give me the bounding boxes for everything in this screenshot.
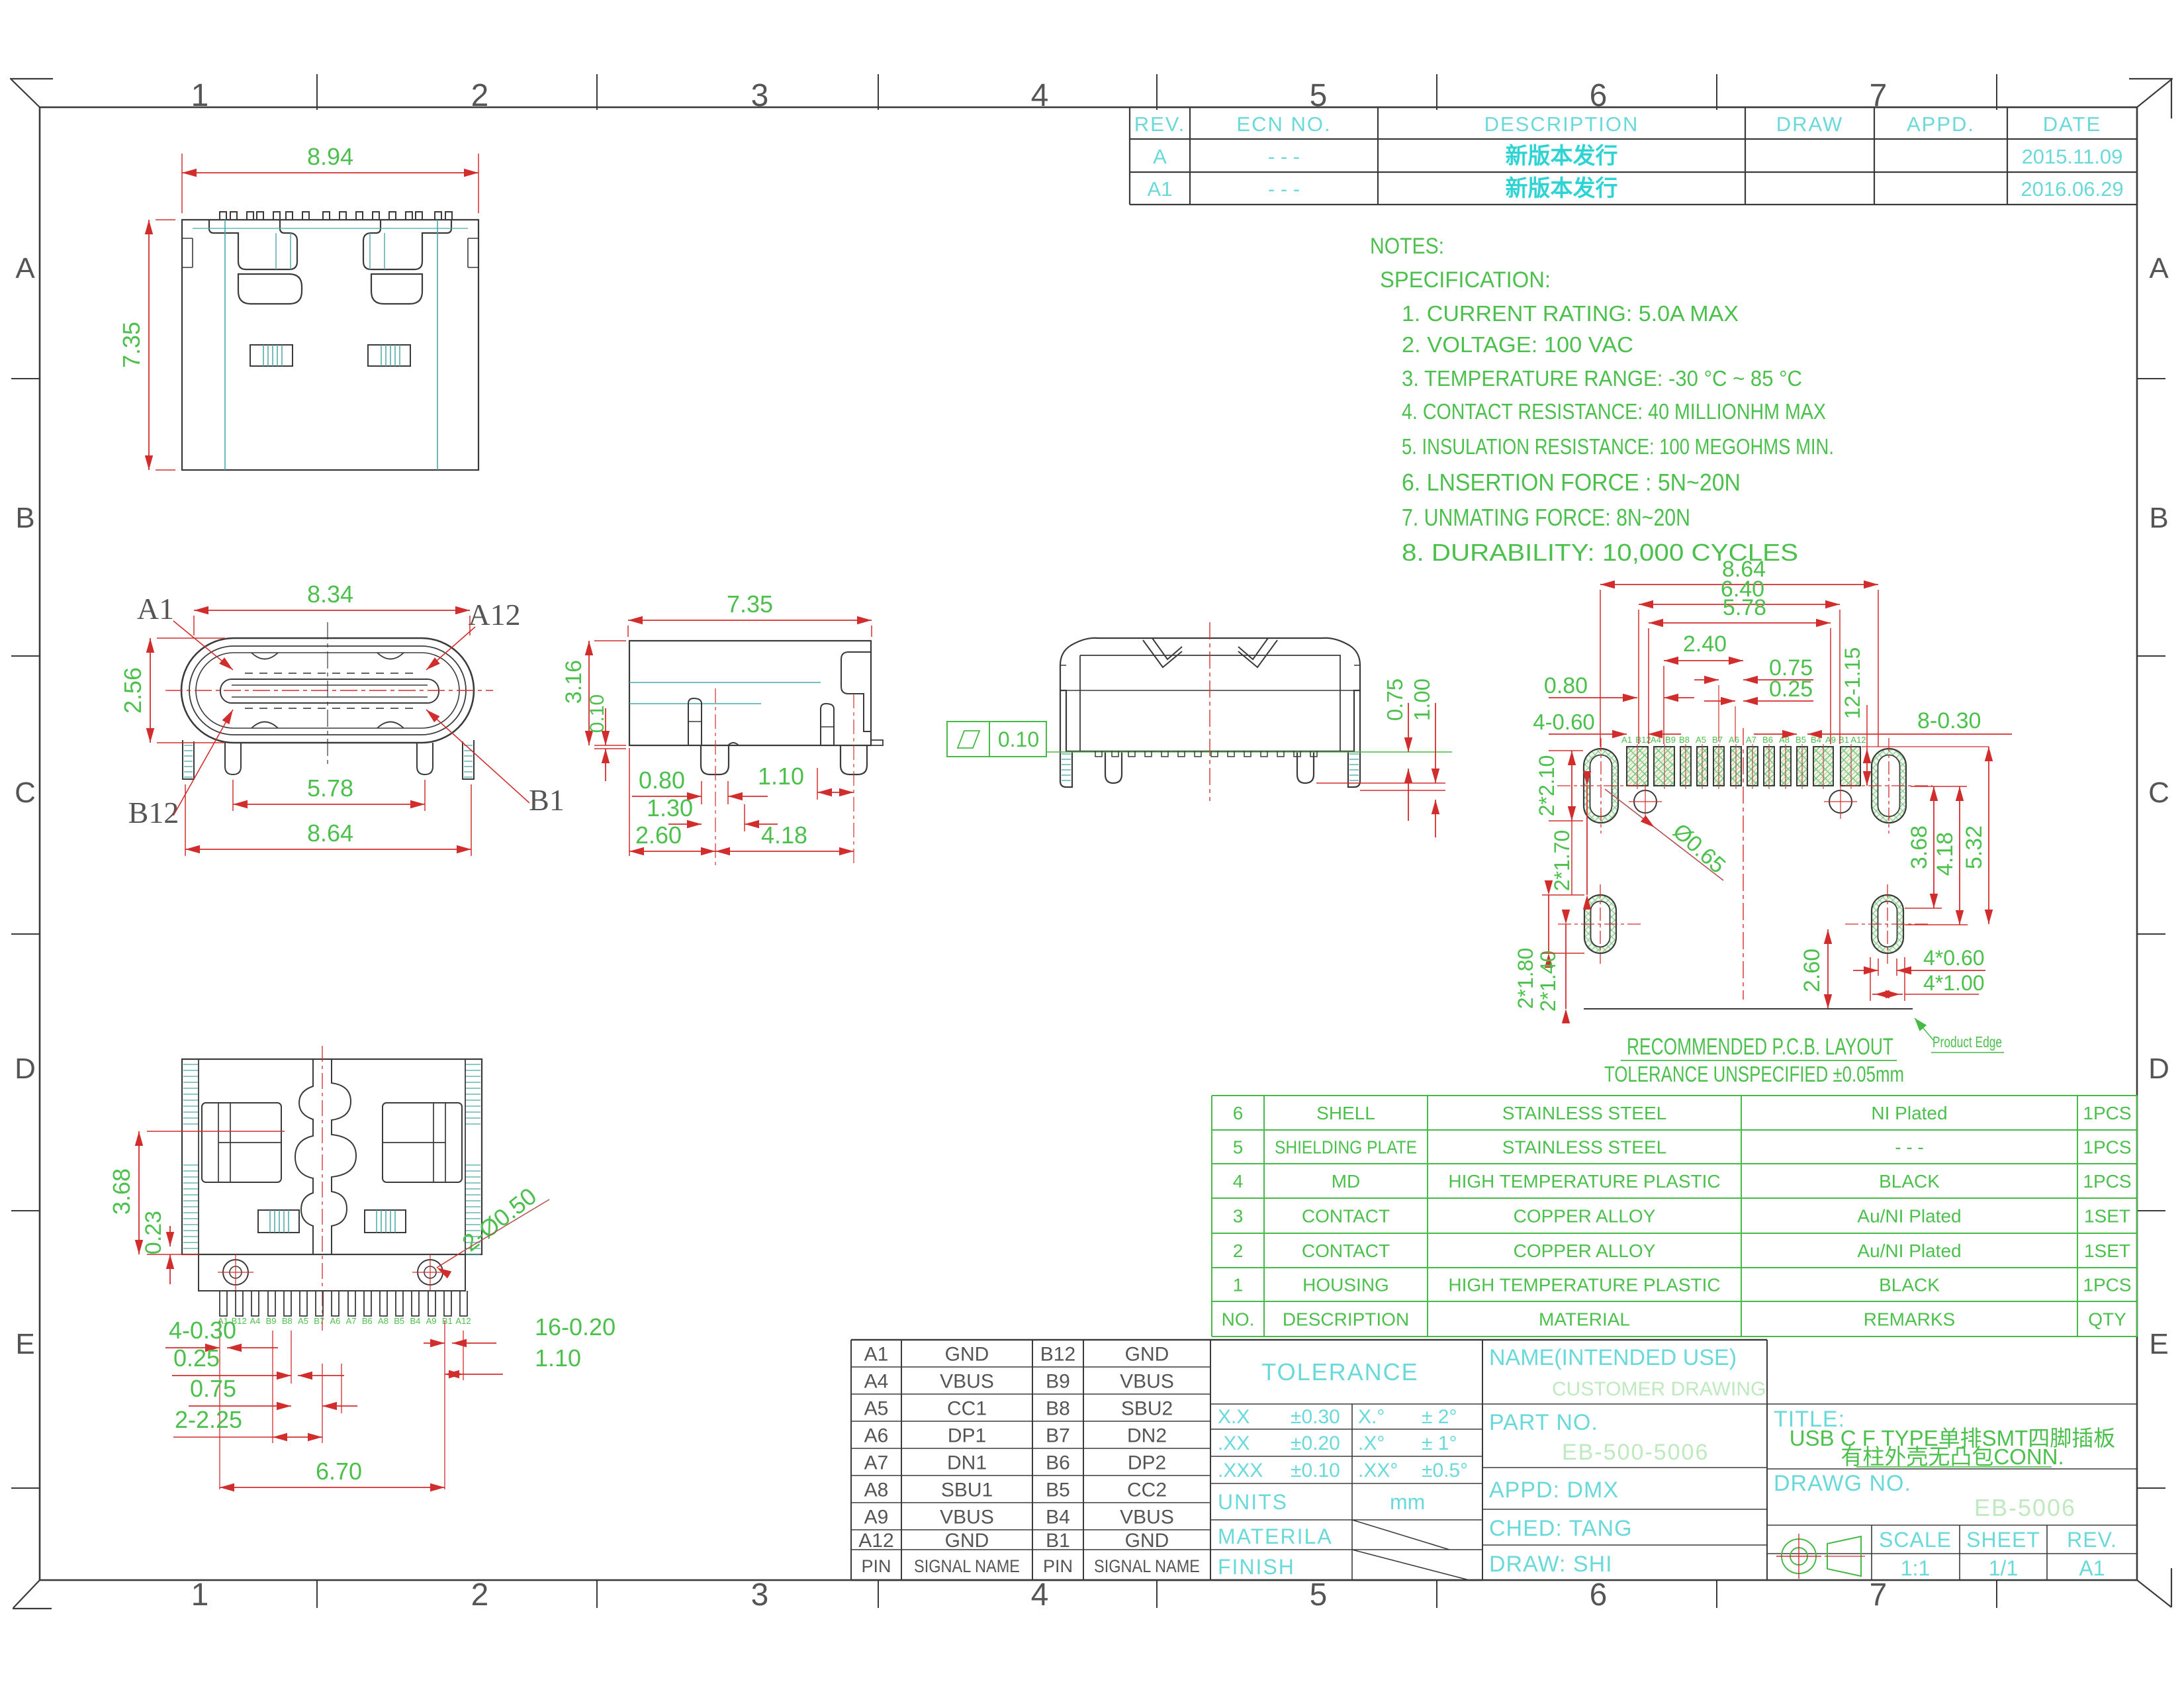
svg-text:2.56: 2.56 [119, 667, 146, 714]
svg-text:3.16: 3.16 [561, 660, 586, 704]
svg-text:1PCS: 1PCS [2083, 1103, 2131, 1123]
svg-text:1. CURRENT RATING: 5.0A MA: 1. CURRENT RATING: 5.0A MAX [1402, 301, 1739, 326]
dim 0.23 bottom [169, 1226, 171, 1246]
svg-text:B12: B12 [128, 796, 179, 829]
dim 0.80 [701, 781, 702, 804]
svg-text:2.60: 2.60 [1799, 949, 1825, 992]
svg-text:5.78: 5.78 [1723, 595, 1766, 620]
svg-text:B8: B8 [1046, 1398, 1070, 1420]
svg-text:A8: A8 [864, 1479, 889, 1501]
svg-text:A1: A1 [137, 592, 174, 626]
svg-text:A7: A7 [864, 1452, 889, 1474]
svg-text:B7: B7 [1046, 1425, 1070, 1447]
top view teal center lines [224, 220, 226, 470]
svg-text:DRAW: SHI: DRAW: SHI [1489, 1552, 1613, 1577]
svg-text:3: 3 [751, 78, 769, 113]
dim 5.78 (front) [233, 804, 425, 805]
svg-text:2*1.70: 2*1.70 [1550, 830, 1574, 892]
svg-text:1SET: 1SET [2084, 1241, 2130, 1261]
dim 8.64 (front) [185, 849, 471, 850]
dim 0.80 pcb [1549, 697, 1637, 698]
dim 7.35 (top view) [148, 220, 150, 470]
bottom view body [182, 1059, 482, 1254]
svg-text:新版本发行: 新版本发行 [1506, 176, 1618, 201]
svg-text:B8: B8 [1679, 735, 1690, 745]
svg-text:DP2: DP2 [1128, 1452, 1166, 1474]
svg-text:B5: B5 [1796, 735, 1806, 745]
pcb dims top [1600, 584, 1878, 585]
svg-text:5: 5 [1233, 1137, 1244, 1158]
pcb center vline [1743, 728, 1744, 1000]
scale/sheet/rev cells [1767, 1553, 2137, 1554]
svg-text:5.32: 5.32 [1962, 825, 1987, 869]
svg-text:QTY: QTY [2088, 1309, 2126, 1330]
svg-text:MATERILA: MATERILA [1218, 1524, 1333, 1548]
phi 0.65 leader [1605, 789, 1723, 880]
svg-text:A5: A5 [1696, 735, 1706, 745]
svg-text:0.80: 0.80 [1544, 673, 1588, 698]
svg-text:0.10: 0.10 [998, 727, 1039, 751]
svg-text:VBUS: VBUS [940, 1371, 994, 1393]
svg-text:HIGH TEMPERATURE PLASTIC: HIGH TEMPERATURE PLASTIC [1448, 1171, 1720, 1192]
dim 7.35 (side) [628, 620, 872, 621]
rear view legs [1060, 690, 1360, 787]
svg-text:.X°: .X° [1358, 1432, 1385, 1454]
svg-text:± 1°: ± 1° [1422, 1432, 1457, 1454]
svg-text:4.18: 4.18 [1933, 832, 1958, 876]
svg-text:0.25: 0.25 [173, 1344, 220, 1372]
dim 1.10 [817, 768, 818, 800]
side view teal lines [629, 682, 821, 683]
pcb left dims [1571, 751, 1572, 821]
svg-text:SCALE: SCALE [1879, 1528, 1952, 1552]
svg-text:B7: B7 [314, 1316, 324, 1326]
svg-text:NO.: NO. [1222, 1309, 1255, 1330]
top view latch cutouts [209, 220, 451, 304]
top view body [182, 220, 478, 470]
svg-text:.XXX: .XXX [1218, 1460, 1263, 1481]
svg-text:B7: B7 [1712, 735, 1723, 745]
svg-text:B6: B6 [1046, 1452, 1070, 1474]
svg-text:MATERIAL: MATERIAL [1539, 1309, 1630, 1330]
bottom shield band [199, 1254, 465, 1291]
svg-text:- - -: - - - [1895, 1137, 1924, 1158]
svg-text:GND: GND [945, 1530, 989, 1552]
rear view body [1060, 638, 1360, 751]
svg-text:VBUS: VBUS [1120, 1371, 1174, 1393]
svg-text:B9: B9 [266, 1316, 277, 1326]
svg-text:A6: A6 [864, 1425, 889, 1447]
zone ticks left/right [11, 378, 40, 379]
svg-text:±0.20: ±0.20 [1291, 1432, 1340, 1454]
svg-text:D: D [15, 1053, 36, 1085]
svg-text:A12: A12 [858, 1530, 893, 1552]
svg-text:4: 4 [1031, 1577, 1049, 1613]
pcb bottom-left dims [1548, 895, 1549, 953]
svg-text:A5: A5 [298, 1316, 308, 1326]
svg-text:A1: A1 [1621, 735, 1632, 745]
svg-text:2*1.80: 2*1.80 [1514, 948, 1537, 1009]
corner mark bottom-left [13, 1580, 40, 1608]
svg-text:CC2: CC2 [1127, 1479, 1167, 1501]
svg-text:1PCS: 1PCS [2083, 1137, 2131, 1158]
pcb pads row [1627, 747, 1860, 786]
svg-text:VBUS: VBUS [940, 1507, 994, 1528]
svg-text:B6: B6 [362, 1316, 373, 1326]
svg-text:COPPER ALLOY: COPPER ALLOY [1514, 1241, 1656, 1261]
product edge label [1915, 1018, 1934, 1041]
svg-text:A7: A7 [346, 1316, 357, 1326]
svg-text:B5: B5 [394, 1316, 404, 1326]
svg-text:D: D [2148, 1053, 2169, 1085]
svg-text:APPD.: APPD. [1907, 113, 1975, 136]
dim 2.56 [150, 638, 151, 743]
svg-text:2016.06.29: 2016.06.29 [2021, 177, 2123, 201]
svg-text:±0.5°: ±0.5° [1422, 1460, 1468, 1481]
front view inner cavity [196, 653, 459, 728]
svg-text:0.80: 0.80 [639, 767, 685, 794]
svg-text:A8: A8 [378, 1316, 388, 1326]
svg-text:B12: B12 [1040, 1344, 1075, 1366]
svg-text:- - -: - - - [1268, 145, 1300, 168]
svg-text:HIGH TEMPERATURE PLASTIC: HIGH TEMPERATURE PLASTIC [1448, 1275, 1720, 1295]
svg-text:E: E [15, 1328, 34, 1360]
svg-text:B4: B4 [1046, 1507, 1070, 1528]
svg-text:3: 3 [751, 1577, 769, 1613]
svg-text:A12: A12 [1850, 735, 1866, 745]
svg-text:DRAWG NO.: DRAWG NO. [1774, 1471, 1911, 1496]
svg-text:B1: B1 [1046, 1530, 1070, 1552]
dim 4-0.60 pcb [1549, 733, 1627, 735]
svg-text:4.18: 4.18 [761, 821, 807, 849]
svg-text:3. TEMPERATURE RANGE: -30: 3. TEMPERATURE RANGE: -30 °C ~ 85 °C [1402, 366, 1802, 391]
svg-text:A12: A12 [455, 1316, 471, 1326]
svg-text:UNITS: UNITS [1218, 1490, 1288, 1514]
svg-text:A6: A6 [330, 1316, 340, 1326]
svg-text:6: 6 [1590, 1577, 1608, 1613]
svg-text:A4: A4 [864, 1371, 889, 1393]
bottom view weld windows [258, 1210, 299, 1233]
svg-text:0.23: 0.23 [141, 1211, 166, 1254]
svg-text:E: E [2149, 1328, 2168, 1360]
svg-text:6. LNSERTION FORCE : 5: 6. LNSERTION FORCE : 5N~20N [1402, 469, 1741, 496]
svg-text:4*1.00: 4*1.00 [1923, 971, 1985, 995]
svg-text:COPPER ALLOY: COPPER ALLOY [1514, 1206, 1656, 1227]
svg-text:SHEET: SHEET [1966, 1528, 2040, 1552]
side view leg centerlines [715, 688, 716, 867]
svg-text:- - -: - - - [1268, 177, 1300, 201]
svg-text:TOLERANCE UNSPECIFIED ±0.05m: TOLERANCE UNSPECIFIED ±0.05mm [1604, 1062, 1904, 1086]
svg-text:SHELL: SHELL [1316, 1103, 1375, 1123]
top view shell pins [220, 212, 452, 220]
dim 0.75 pcb [1694, 679, 1719, 680]
svg-text:2.40: 2.40 [1683, 632, 1727, 657]
svg-text:X.X: X.X [1218, 1406, 1250, 1428]
svg-text:2015.11.09: 2015.11.09 [2022, 145, 2123, 168]
dim 12-1.15 [1862, 746, 1989, 747]
front view tongue [220, 679, 439, 703]
bottom view side rails [183, 1064, 199, 1065]
svg-text:7.35: 7.35 [727, 590, 773, 618]
svg-text:SIGNAL NAME: SIGNAL NAME [1094, 1556, 1200, 1576]
tolerance block [1210, 1339, 1482, 1340]
bottom pins [220, 1291, 467, 1316]
svg-text:REMARKS: REMARKS [1864, 1309, 1955, 1330]
bottom dims below [219, 1321, 220, 1489]
svg-text:1PCS: 1PCS [2083, 1275, 2131, 1295]
svg-text:1: 1 [191, 78, 209, 113]
svg-text:2. VOLTAGE: 100 VAC: 2. VOLTAGE: 100 VAC [1402, 332, 1633, 357]
svg-text:16-0.20: 16-0.20 [535, 1313, 615, 1340]
svg-text:STAINLESS STEEL: STAINLESS STEEL [1502, 1137, 1666, 1158]
svg-text:A7: A7 [1746, 735, 1756, 745]
svg-text:GND: GND [1125, 1530, 1169, 1552]
svg-text:8.94: 8.94 [307, 143, 353, 170]
svg-text:SBU1: SBU1 [941, 1479, 993, 1501]
svg-text:A: A [2149, 252, 2169, 285]
svg-text:7: 7 [1870, 1577, 1888, 1613]
svg-text:DN2: DN2 [1127, 1425, 1167, 1447]
svg-text:1:1: 1:1 [1901, 1556, 1930, 1580]
svg-text:±0.30: ±0.30 [1291, 1406, 1340, 1428]
dim 8.34 [194, 610, 470, 611]
top view weld windows [250, 345, 293, 366]
rear seating plane (green) [1046, 751, 1452, 753]
svg-text:B8: B8 [282, 1316, 293, 1326]
svg-text:A: A [1153, 145, 1167, 168]
svg-text:DATE: DATE [2043, 113, 2101, 136]
svg-text:2: 2 [471, 1577, 489, 1613]
svg-text:0.25: 0.25 [1769, 677, 1813, 702]
svg-text:12-1.15: 12-1.15 [1841, 647, 1864, 720]
svg-text:A12: A12 [468, 598, 520, 632]
front view centerlines [165, 690, 493, 691]
svg-text:± 2°: ± 2° [1422, 1406, 1457, 1428]
bom table [1212, 1095, 2137, 1096]
svg-text:1.10: 1.10 [535, 1344, 581, 1372]
svg-text:0.75: 0.75 [1383, 679, 1407, 721]
svg-text:B9: B9 [1665, 735, 1676, 745]
svg-text:5.78: 5.78 [307, 774, 353, 802]
svg-text:RECOMMENDED P.C.B. LAYOUT: RECOMMENDED P.C.B. LAYOUT [1627, 1034, 1893, 1060]
svg-text:SBU2: SBU2 [1121, 1398, 1173, 1420]
front view EMC springs top [251, 653, 404, 728]
svg-text:5: 5 [1310, 1577, 1328, 1613]
svg-text:DESCRIPTION: DESCRIPTION [1484, 113, 1639, 136]
dim 4*0.60 / 4*1.00 [1878, 959, 1879, 976]
svg-text:STAINLESS STEEL: STAINLESS STEEL [1502, 1103, 1666, 1123]
svg-text:1.30: 1.30 [647, 794, 693, 821]
svg-text:APPD: DMX: APPD: DMX [1489, 1477, 1619, 1503]
svg-text:0.10: 0.10 [586, 694, 608, 733]
svg-text:3.68: 3.68 [1907, 825, 1932, 869]
svg-text:新版本发行: 新版本发行 [1506, 144, 1618, 169]
svg-text:A5: A5 [864, 1398, 889, 1420]
svg-text:SHIELDING PLATE: SHIELDING PLATE [1275, 1137, 1417, 1158]
svg-text:8.34: 8.34 [307, 581, 353, 608]
dim 4.18 [715, 851, 854, 852]
svg-text:3: 3 [1233, 1206, 1244, 1227]
svg-text:VBUS: VBUS [1120, 1507, 1174, 1528]
svg-text:B: B [2149, 502, 2168, 534]
side view legs [688, 698, 883, 774]
pcb ovals [1557, 738, 1645, 833]
svg-text:A1: A1 [2079, 1556, 2105, 1580]
bottom view center line [322, 1046, 323, 1331]
svg-text:Au/NI Plated: Au/NI Plated [1857, 1206, 1961, 1227]
dim 1.30 [744, 804, 745, 831]
svg-text:A4: A4 [250, 1316, 260, 1326]
corner mark top-left [10, 78, 53, 79]
corner mark top-right [2129, 78, 2173, 79]
svg-text:1SET: 1SET [2084, 1206, 2130, 1227]
corner mark bottom-right [2137, 1580, 2171, 1607]
svg-text:BLACK: BLACK [1879, 1171, 1940, 1192]
svg-text:DESCRIPTION: DESCRIPTION [1283, 1309, 1409, 1330]
svg-text:B6: B6 [1762, 735, 1773, 745]
dim 3.16 (side) [588, 641, 590, 745]
svg-text:REV.: REV. [1134, 113, 1186, 136]
svg-text:4: 4 [1233, 1171, 1244, 1192]
svg-text:4. CONTACT RESISTANCE: 40: 4. CONTACT RESISTANCE: 40 MILLIONHM MAX [1402, 399, 1826, 424]
title block right [1767, 1403, 2137, 1405]
svg-text:B4: B4 [410, 1316, 420, 1326]
dim 0.75 / 1.00 [1408, 703, 1409, 752]
svg-text:Product Edge: Product Edge [1933, 1033, 2002, 1051]
front view legs [183, 740, 474, 779]
svg-text:FINISH: FINISH [1218, 1555, 1295, 1579]
svg-text:CONTACT: CONTACT [1302, 1206, 1390, 1227]
svg-text:1PCS: 1PCS [2083, 1171, 2131, 1192]
svg-text:B1: B1 [529, 783, 565, 817]
svg-text:B: B [15, 502, 34, 534]
svg-text:4*0.60: 4*0.60 [1923, 946, 1985, 970]
svg-text:mm: mm [1390, 1490, 1425, 1514]
bottom view left cell [202, 1103, 462, 1182]
pin table [851, 1339, 1210, 1340]
svg-text:A9: A9 [426, 1316, 437, 1326]
svg-text:7.35: 7.35 [118, 322, 145, 368]
svg-text:CUSTOMER DRAWING: CUSTOMER DRAWING [1552, 1378, 1766, 1400]
svg-text:NOTES:: NOTES: [1370, 234, 1444, 259]
dim 3.68 bottom [138, 1131, 140, 1254]
svg-text:EB-500-5006: EB-500-5006 [1562, 1440, 1709, 1465]
rear bottom contact ticks [1095, 751, 1317, 757]
rivets [223, 1260, 248, 1285]
svg-text:1.10: 1.10 [758, 763, 804, 790]
svg-text:TOLERANCE: TOLERANCE [1261, 1358, 1418, 1385]
svg-text:2.60: 2.60 [635, 821, 682, 849]
flatness callout [947, 722, 1046, 757]
svg-text:1: 1 [191, 1577, 209, 1613]
svg-text:BLACK: BLACK [1879, 1275, 1940, 1295]
svg-text:1: 1 [1233, 1275, 1244, 1295]
svg-text:4-0.30: 4-0.30 [169, 1317, 236, 1344]
svg-text:4-0.60: 4-0.60 [1533, 710, 1595, 734]
svg-text:.XX°: .XX° [1358, 1460, 1398, 1481]
svg-text:NI Plated: NI Plated [1871, 1103, 1947, 1123]
front view outer shell [181, 638, 474, 743]
svg-text:Au/NI Plated: Au/NI Plated [1857, 1241, 1961, 1261]
svg-text:0.75: 0.75 [190, 1375, 236, 1402]
svg-text:2*2.10: 2*2.10 [1535, 755, 1559, 817]
dim 2.60 pcb [1827, 929, 1829, 1009]
svg-text:8-0.30: 8-0.30 [1917, 708, 1981, 733]
product edge line [1584, 1008, 1913, 1009]
svg-text:3.68: 3.68 [108, 1168, 135, 1215]
pad centerlines [1637, 744, 1638, 789]
svg-text:4: 4 [1031, 78, 1049, 113]
svg-text:ECN NO.: ECN NO. [1236, 113, 1331, 136]
svg-text:B9: B9 [1046, 1371, 1070, 1393]
revision table [1130, 107, 2137, 108]
svg-text:1.00: 1.00 [1410, 679, 1434, 721]
bottom view center slot [332, 1059, 356, 1254]
svg-text:CONTACT: CONTACT [1302, 1241, 1390, 1261]
projection symbol [1782, 1536, 1861, 1576]
dim 8-0.30 pcb [1754, 733, 1797, 735]
zone ticks top/bottom [316, 74, 318, 110]
svg-text:.XX: .XX [1218, 1432, 1250, 1454]
svg-text:±0.10: ±0.10 [1291, 1460, 1340, 1481]
pcb circles [1634, 790, 1657, 813]
svg-text:8.64: 8.64 [307, 820, 353, 847]
dim 0.10 (side) [605, 708, 606, 745]
dim 0.25 pcb [1704, 700, 1735, 702]
svg-text:1/1: 1/1 [1989, 1556, 2018, 1580]
dim 2.60 [629, 851, 715, 852]
svg-text:2: 2 [471, 78, 489, 113]
svg-text:2*1.40: 2*1.40 [1536, 951, 1560, 1012]
svg-text:A: A [15, 252, 35, 285]
side view body [629, 641, 871, 745]
svg-text:PIN: PIN [861, 1556, 891, 1576]
svg-text:GND: GND [945, 1344, 989, 1366]
svg-text:5. INSULATION RESISTANCE: 1: 5. INSULATION RESISTANCE: 100 MEGOHMS MI… [1402, 434, 1834, 459]
rear view centerline [1209, 622, 1210, 801]
svg-text:2: 2 [1233, 1241, 1244, 1261]
svg-text:X.°: X.° [1358, 1406, 1385, 1428]
svg-text:B5: B5 [1046, 1479, 1070, 1501]
dim 8.94 [182, 172, 478, 173]
svg-text:SIGNAL NAME: SIGNAL NAME [914, 1556, 1020, 1576]
svg-text:MD: MD [1332, 1171, 1361, 1192]
svg-text:2-2.25: 2-2.25 [175, 1406, 242, 1433]
pcb right dims [1933, 786, 1934, 908]
svg-text:NAME(INTENDED USE): NAME(INTENDED USE) [1489, 1345, 1737, 1370]
name column [1482, 1339, 1767, 1340]
svg-text:DRAW: DRAW [1776, 113, 1844, 136]
svg-text:A1: A1 [864, 1344, 889, 1366]
svg-text:CHED: TANG: CHED: TANG [1489, 1516, 1633, 1541]
svg-text:C: C [15, 776, 36, 809]
svg-text:7. UNMATING FORCE: 8N~20: 7. UNMATING FORCE: 8N~20N [1402, 504, 1690, 531]
svg-text:SPECIFICATION:: SPECIFICATION: [1380, 267, 1551, 293]
svg-text:HOUSING: HOUSING [1302, 1275, 1389, 1295]
svg-text:REV.: REV. [2067, 1528, 2117, 1552]
svg-text:EB-5006: EB-5006 [1974, 1494, 2076, 1521]
svg-text:PART NO.: PART NO. [1489, 1410, 1598, 1435]
svg-text:GND: GND [1125, 1344, 1169, 1366]
svg-text:6.70: 6.70 [316, 1458, 362, 1485]
svg-text:PIN: PIN [1043, 1556, 1073, 1576]
svg-text:6: 6 [1233, 1103, 1244, 1123]
svg-text:C: C [2148, 776, 2169, 809]
svg-text:A6: A6 [1729, 735, 1739, 745]
svg-text:CC1: CC1 [947, 1398, 987, 1420]
svg-text:A1: A1 [1148, 177, 1173, 201]
svg-text:DP1: DP1 [948, 1425, 986, 1447]
